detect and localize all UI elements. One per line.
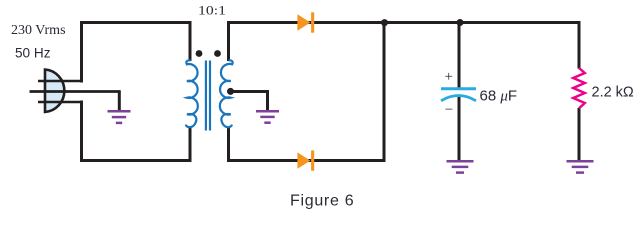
phasing dot (secondary) (214, 50, 221, 57)
junction dot (capacitor tap) (457, 19, 464, 26)
wire: secondary top rail to output corner (229, 21, 581, 24)
ground (capacitor) (447, 161, 474, 172)
wire: resistor bottom lead (578, 108, 581, 160)
transformer T1 primary coil (186, 60, 198, 127)
svg-text:50 Hz: 50 Hz (15, 46, 51, 61)
wire: secondary bottom rail (229, 159, 386, 162)
svg-text:Figure 6: Figure 6 (290, 193, 354, 210)
wire: riser from bottom diode to top rail (383, 21, 386, 162)
transformer T1 core (206, 61, 210, 131)
wire: neutral/earth line through plug (30, 90, 121, 93)
wire: capacitor top lead (458, 23, 461, 88)
wire: bottom-left rail (to primary) (80, 159, 192, 162)
wire: center tap lead (229, 90, 270, 93)
wire: primary top lead (189, 21, 192, 61)
svg-text:−: − (445, 102, 453, 118)
wire: upper prong (38, 80, 83, 83)
svg-text:68 μF: 68 μF (480, 87, 518, 104)
svg-text:10:1: 10:1 (198, 3, 226, 17)
wire: resistor top lead (578, 21, 581, 69)
wire: capacitor bottom lead (458, 97, 461, 160)
wire: plug earth ground stub (118, 92, 121, 111)
svg-text:2.2 kΩ: 2.2 kΩ (592, 84, 634, 100)
wire: left vertical upper (80, 21, 83, 83)
wire: secondary bottom lead (227, 127, 230, 162)
junction dot (riser to top rail) (381, 19, 388, 26)
wire: primary bottom lead (189, 127, 192, 162)
plug P1 (AC mains source) (45, 70, 64, 113)
ground (resistor) (567, 161, 594, 172)
junction dot (center tap) (227, 88, 234, 95)
wire: secondary top lead (227, 21, 230, 61)
wire: top-left rail (plug to primary) (80, 21, 192, 24)
transformer T1 secondary coil (220, 60, 233, 127)
phasing dot (primary) (196, 50, 203, 57)
wire: left vertical lower (80, 101, 83, 163)
wire: lower prong (38, 101, 83, 104)
wire: center tap ground stub (266, 92, 269, 111)
resistor R1 zigzag (573, 68, 585, 108)
ground (plug earth) (108, 111, 131, 123)
diode D2 (bottom) (297, 150, 314, 170)
diode D1 (top) (297, 12, 314, 32)
capacitor C1 plates (441, 89, 476, 101)
svg-text:230 Vrms: 230 Vrms (11, 23, 66, 38)
ground (center tap) (256, 111, 279, 123)
svg-text:+: + (445, 69, 453, 85)
